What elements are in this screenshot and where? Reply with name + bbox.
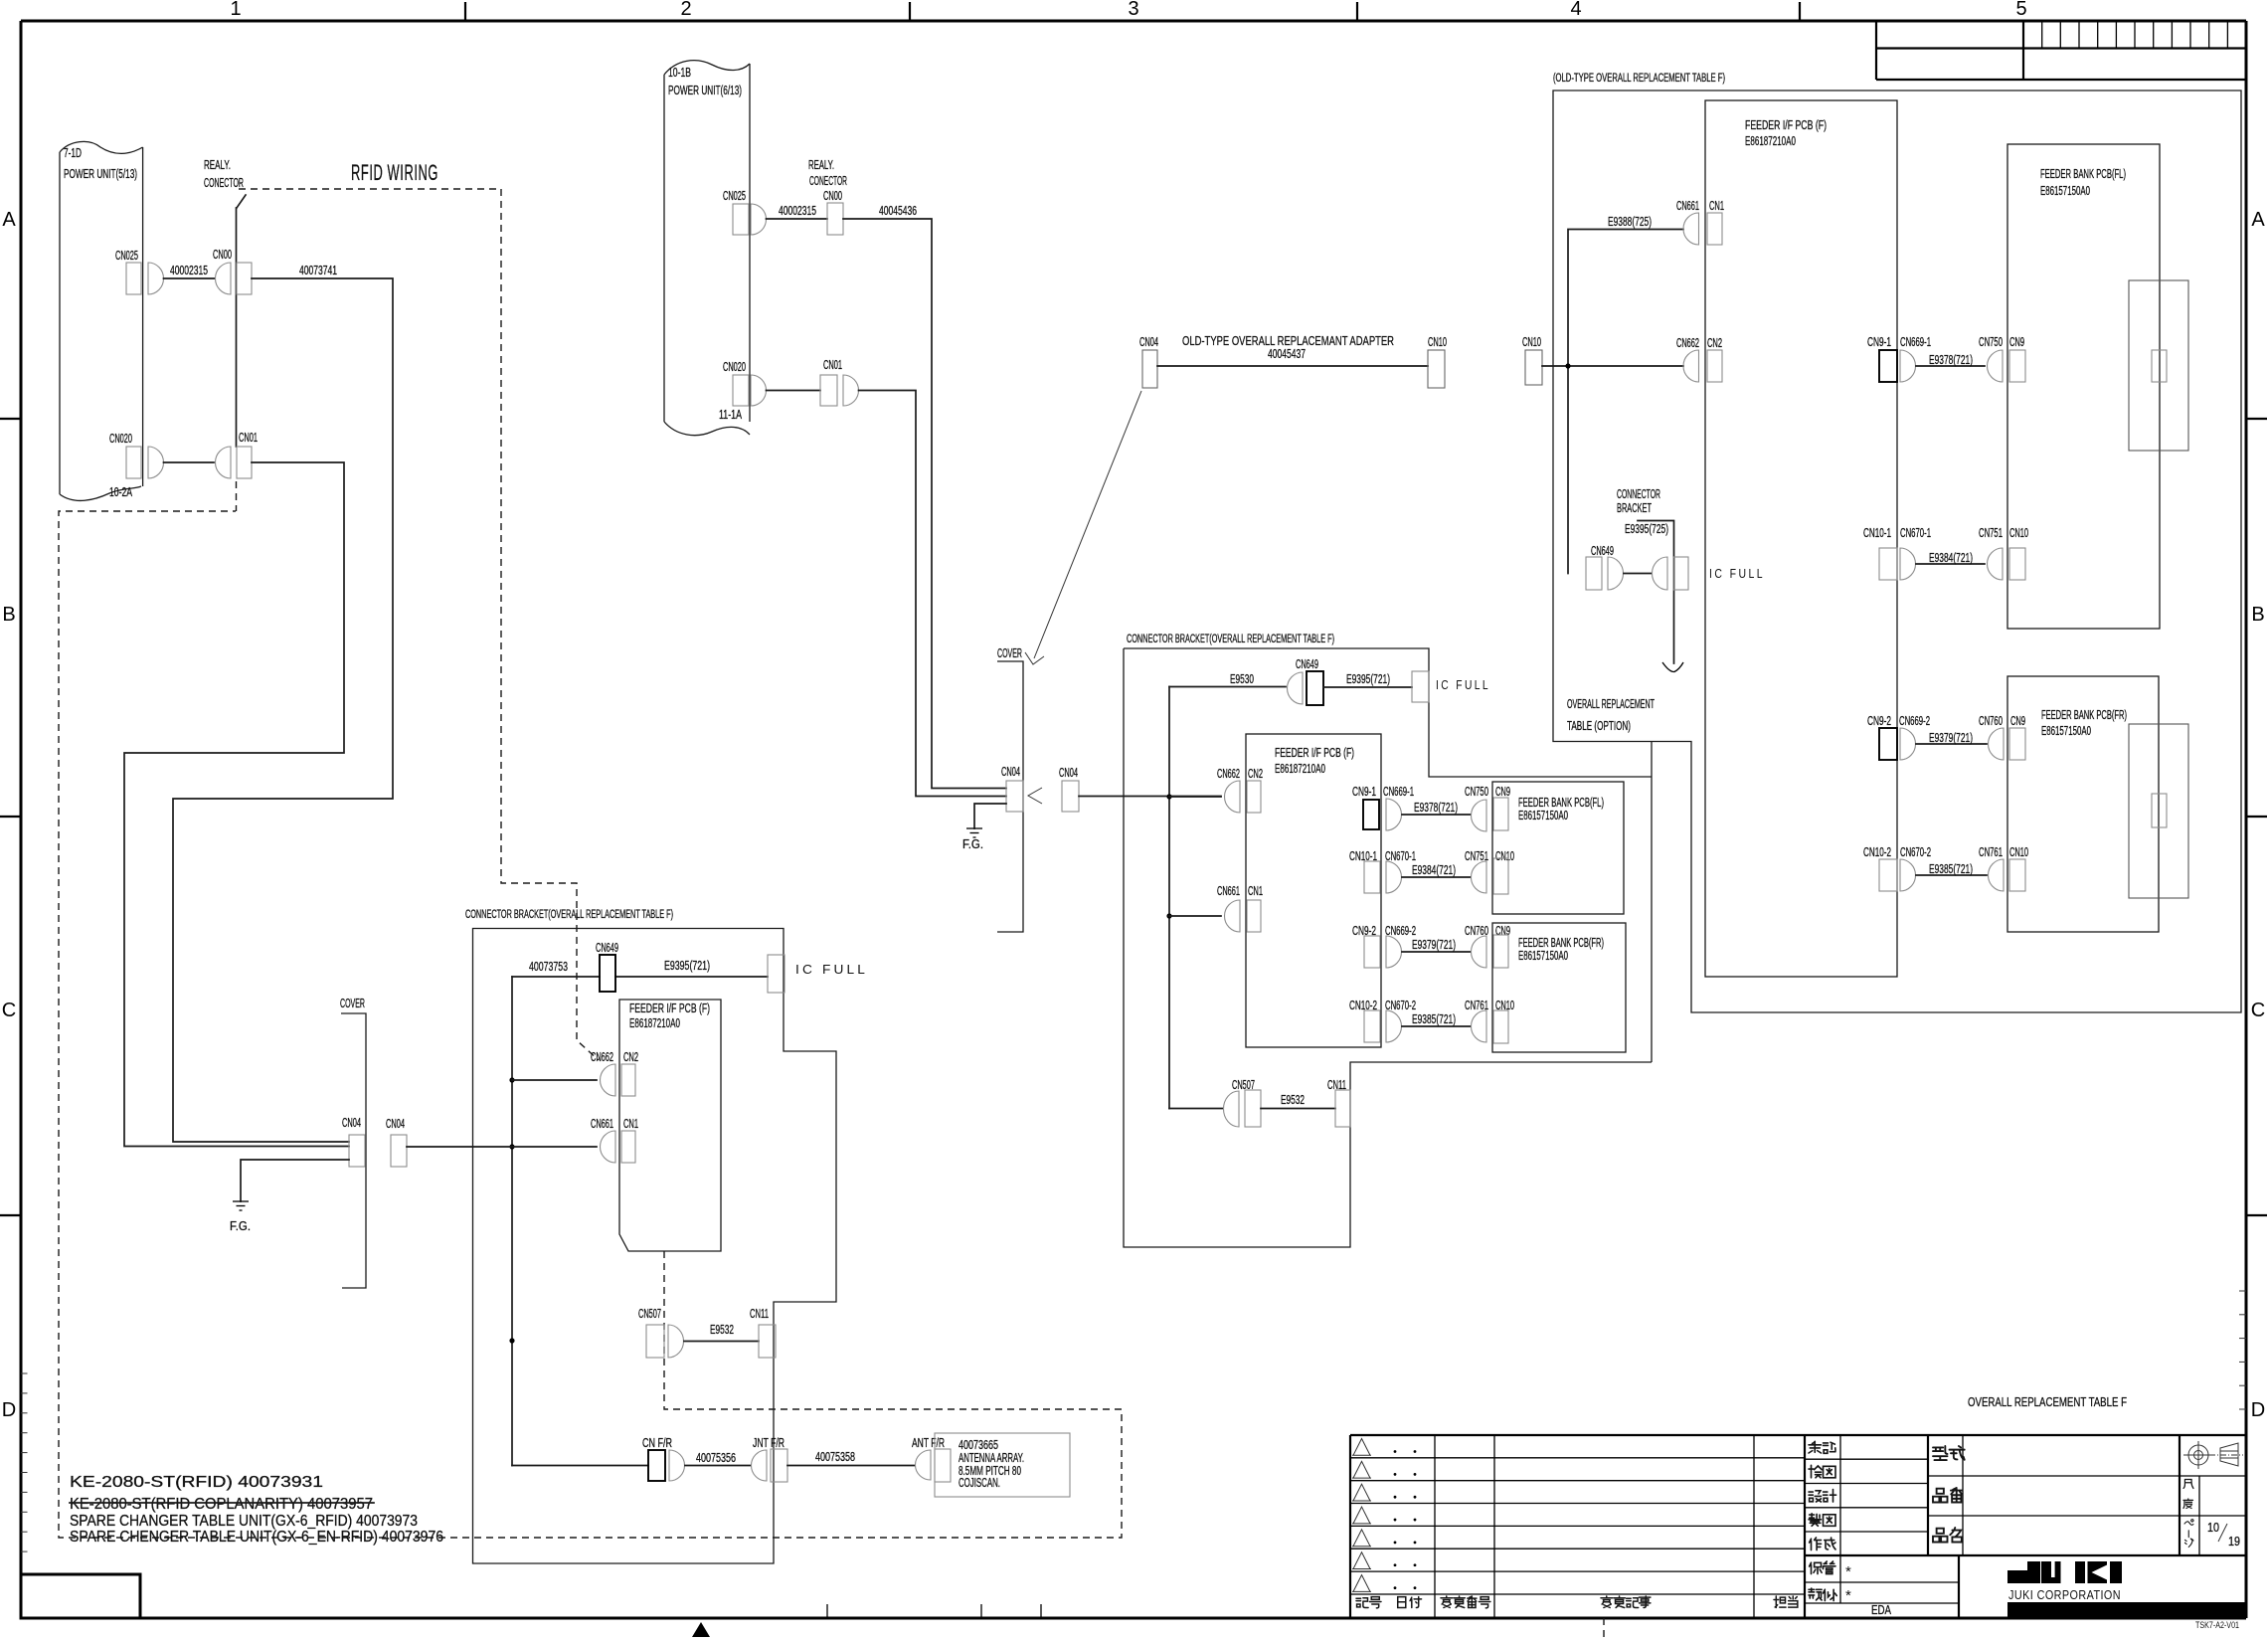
wire E9388 725: [1568, 215, 1683, 574]
connector CN670-2 (right): [1900, 845, 1931, 891]
relay connector labels (middle): [808, 158, 847, 203]
IC FULL connector (center): [1412, 671, 1490, 702]
card edge connector FL (right): [2129, 280, 2188, 451]
svg-text:(OLD-TYPE OVERALL REPLACEMENT: (OLD-TYPE OVERALL REPLACEMENT TABLE F): [1553, 73, 1725, 85]
svg-text:CONNECTOR BRACKET(OVERALL REPL: CONNECTOR BRACKET(OVERALL REPLACEMENT TA…: [465, 909, 673, 921]
svg-text:CN11: CN11: [750, 1307, 769, 1321]
wire CN01 branch: [124, 462, 349, 1147]
frame ruler ticks left: [21, 1373, 28, 1551]
feeder bank pcb FR box (right): [2007, 676, 2159, 932]
svg-text:CN649: CN649: [1296, 657, 1318, 671]
svg-text:CN1: CN1: [1709, 199, 1724, 213]
wire E9530: [1169, 672, 1286, 687]
connector CN04 (left-center pair2): [386, 1117, 407, 1167]
svg-text:E86157150A0: E86157150A0: [2040, 184, 2090, 198]
wire 40002315 (middle): [767, 204, 828, 219]
svg-text:CN761: CN761: [1979, 845, 2003, 859]
title block black bar: [2007, 1602, 2246, 1618]
svg-text:E9395(725): E9395(725): [1625, 522, 1668, 536]
connector CN661/CN1 (center): [1217, 884, 1263, 932]
connector CN10-2 (center): [1349, 999, 1380, 1042]
svg-text:E9395(721): E9395(721): [1346, 672, 1390, 686]
svg-text:10-1B: 10-1B: [668, 66, 691, 80]
svg-text:CN662: CN662: [591, 1050, 613, 1064]
connector CN00 (left): [213, 248, 252, 294]
connector CN669-1 (right): [1900, 335, 1931, 382]
svg-text:FEEDER BANK PCB(FL): FEEDER BANK PCB(FL): [2040, 167, 2126, 181]
bracket bus wire (left-center): [511, 977, 513, 1466]
power unit 10-1B labels: [668, 66, 742, 422]
RFID wiring dashed boundary: [59, 189, 1122, 1538]
svg-text:E9384(721): E9384(721): [1929, 551, 1973, 565]
svg-text:E9378(721): E9378(721): [1929, 353, 1973, 367]
wire 40073741: [173, 264, 393, 1142]
connector CN669-2 (right): [1899, 714, 1930, 760]
connector CN662/CN2 (left-center): [591, 1050, 638, 1096]
connector CN10-2 (right): [1863, 845, 1897, 891]
wire to CN F/R: [512, 1465, 648, 1467]
svg-text:CN760: CN760: [1979, 714, 2003, 728]
feeder IF pcb box (left-center): [619, 1000, 721, 1251]
svg-text:40075356: 40075356: [696, 1451, 736, 1465]
svg-text:FEEDER BANK PCB(FR): FEEDER BANK PCB(FR): [1518, 936, 1604, 950]
wire 40075358: [787, 1450, 915, 1466]
junction dots (left-center): [509, 1077, 514, 1343]
svg-text:40045436: 40045436: [879, 204, 917, 218]
svg-text:CN9: CN9: [2009, 335, 2024, 349]
wire E9384 721 (right): [1916, 551, 1985, 565]
svg-text:KE-2080-ST(RFID) 40073931: KE-2080-ST(RFID) 40073931: [70, 1474, 323, 1491]
svg-text:CN9-1: CN9-1: [1867, 335, 1891, 349]
top-right revision strip table: [1876, 21, 2246, 80]
svg-text:*: *: [1845, 1587, 1851, 1604]
svg-text:ANT F/R: ANT F/R: [912, 1436, 945, 1450]
svg-text:CN F/R: CN F/R: [642, 1436, 672, 1450]
svg-text:CN1: CN1: [1248, 884, 1263, 898]
connector CN761/CN10 (right): [1979, 845, 2028, 891]
svg-text:CONNECTOR BRACKET(OVERALL REPL: CONNECTOR BRACKET(OVERALL REPLACEMENT TA…: [1127, 634, 1334, 645]
svg-text:CN750: CN750: [1979, 335, 2003, 349]
svg-text:E86157150A0: E86157150A0: [1518, 809, 1568, 822]
svg-text:CN661: CN661: [591, 1117, 613, 1131]
wire E9378 721 (right): [1916, 353, 1985, 367]
wire to CN662 (center): [1169, 796, 1221, 798]
wire 40002315 (left): [164, 264, 216, 278]
svg-text:OVERALL REPLACEMENT: OVERALL REPLACEMENT: [1567, 697, 1655, 711]
svg-text:IC FULL: IC FULL: [1436, 677, 1490, 692]
svg-text:40002315: 40002315: [170, 264, 208, 277]
svg-text:CN00: CN00: [213, 248, 232, 262]
svg-text:CN020: CN020: [723, 360, 746, 374]
svg-text:COJISCAN.: COJISCAN.: [959, 1476, 1000, 1490]
svg-text:CN669-1: CN669-1: [1383, 785, 1414, 799]
frame row ticks left: [0, 419, 21, 1215]
card edge connector FR (right): [2129, 724, 2188, 898]
svg-text:CN9: CN9: [2010, 714, 2025, 728]
frame column ticks top: [465, 2, 1800, 21]
svg-text:ANTENNA ARRAY.: ANTENNA ARRAY.: [959, 1451, 1024, 1465]
svg-text:IC FULL: IC FULL: [795, 962, 868, 977]
svg-text:CN2: CN2: [1707, 336, 1722, 350]
svg-text:E9532: E9532: [710, 1323, 734, 1337]
connector CN662/CN2 (center): [1217, 767, 1263, 813]
connector CN669-1 (center): [1383, 785, 1414, 830]
connector CN760/CN9 (right): [1979, 714, 2025, 760]
svg-text:E9395(721): E9395(721): [664, 959, 710, 973]
svg-text:CN025: CN025: [723, 189, 746, 203]
svg-text:CN9-1: CN9-1: [1352, 785, 1376, 799]
svg-text:POWER UNIT(6/13): POWER UNIT(6/13): [668, 84, 742, 97]
connector CN020 (7-1D): [109, 432, 163, 478]
wire E9532 (left-center): [684, 1323, 759, 1342]
svg-text:IC FULL: IC FULL: [1709, 566, 1765, 581]
connector CN649 (left-center): [596, 941, 618, 992]
svg-text:5: 5: [2015, 0, 2026, 20]
svg-text:FEEDER BANK PCB(FL): FEEDER BANK PCB(FL): [1518, 796, 1604, 810]
connector CN10-1 (right): [1863, 526, 1897, 580]
svg-text:10-2A: 10-2A: [109, 485, 132, 499]
svg-text:CN2: CN2: [623, 1050, 638, 1064]
connector CN10 (adapter right): [1428, 335, 1447, 388]
bracket bus wire (center): [1168, 687, 1170, 1109]
svg-text:CN04: CN04: [386, 1117, 405, 1131]
wire CN04 to CN661: [407, 1146, 597, 1148]
column labels 1-5: [230, 0, 2026, 20]
connector bracket box (center): [1124, 648, 1652, 1247]
connector CN01 (left): [215, 431, 258, 478]
svg-text:CN751: CN751: [1979, 526, 2003, 540]
svg-text:E9388(725): E9388(725): [1608, 215, 1652, 229]
svg-text:CN750: CN750: [1465, 785, 1488, 799]
connector CN9-1 (right): [1867, 335, 1897, 382]
connector CN751/CN10 (center): [1465, 849, 1514, 894]
approval column grid: [1805, 1435, 2246, 1618]
ground wire FG (center): [974, 804, 1006, 828]
junction dots (center): [1166, 794, 1171, 918]
svg-text:SPARE CHENGER TABLE UNIT(GX-6_: SPARE CHENGER TABLE UNIT(GX-6_EN-RFID) 4…: [70, 1529, 443, 1546]
svg-text:FEEDER I/F PCB (F): FEEDER I/F PCB (F): [1745, 118, 1827, 132]
connector CN04 (left-center pair1): [342, 1116, 365, 1167]
frame column ticks bottom: [827, 1604, 1041, 1618]
svg-text:E86157150A0: E86157150A0: [1518, 949, 1568, 963]
svg-text:CN662: CN662: [1676, 336, 1699, 350]
wire E9532 (center): [1261, 1093, 1335, 1109]
wire CN649 pair (right): [1624, 573, 1652, 575]
revision triangles and date dots: [1352, 1439, 1416, 1592]
svg-text:CN10: CN10: [2009, 845, 2028, 859]
wire CN01 to CN04 (middle): [859, 391, 1007, 797]
frame row ticks right: [2246, 419, 2267, 1215]
svg-text:B: B: [2251, 604, 2264, 626]
wire center CN04 to bracket: [1079, 796, 1221, 798]
svg-text:TABLE (OPTION): TABLE (OPTION): [1567, 719, 1631, 733]
svg-text:40073741: 40073741: [299, 264, 337, 277]
connector CN760/CN9 (center): [1465, 924, 1510, 968]
connector JNT F/R: [752, 1436, 788, 1482]
connector CN751/CN10 (right): [1979, 526, 2028, 580]
feeder IF pcb labels (right): [1745, 118, 1827, 148]
svg-text:E9384(721): E9384(721): [1412, 863, 1456, 877]
antenna info box: [935, 1433, 1070, 1497]
power unit 7-1D labels: [64, 146, 137, 499]
svg-text:CN1: CN1: [623, 1117, 638, 1131]
svg-text:E9532: E9532: [1281, 1093, 1305, 1107]
svg-text:E9378(721): E9378(721): [1414, 801, 1458, 815]
connector CN649 (center): [1288, 657, 1324, 705]
svg-text:4: 4: [1570, 0, 1581, 20]
svg-text:10: 10: [2207, 1521, 2219, 1535]
connector CN11 (left-center): [750, 1307, 776, 1358]
connector CN F/R: [642, 1436, 685, 1481]
svg-text:40073665: 40073665: [959, 1438, 998, 1452]
feeder IF pcb labels (left-center): [629, 1002, 710, 1030]
svg-text:E9385(721): E9385(721): [1929, 862, 1973, 876]
connector ANT F/R: [912, 1436, 951, 1482]
svg-text:C: C: [2251, 1000, 2265, 1021]
wire E9379 721 (right): [1916, 731, 1987, 745]
approval labels shonin kenzu sekkei seizu sakusei: [1809, 1441, 1891, 1617]
connector CN9-2 (right): [1867, 714, 1897, 760]
connector CN020 (10-1B): [723, 360, 766, 406]
feeder bank pcb FL box (right): [2007, 144, 2160, 629]
svg-text:OVERALL REPLACEMENT TABLE F: OVERALL REPLACEMENT TABLE F: [1968, 1395, 2127, 1409]
ground symbol FG (left-center): [230, 1201, 251, 1233]
connector CN04 (center right): [1059, 766, 1079, 812]
svg-text:D: D: [2, 1399, 16, 1421]
svg-text:CN10: CN10: [1495, 849, 1514, 863]
connector CN662/CN2 (right): [1676, 336, 1722, 382]
svg-text:CN507: CN507: [638, 1307, 661, 1321]
svg-text:FEEDER BANK PCB(FR): FEEDER BANK PCB(FR): [2041, 708, 2127, 722]
svg-text:OLD-TYPE OVERALL REPLACEMANT A: OLD-TYPE OVERALL REPLACEMANT ADAPTER: [1182, 333, 1394, 348]
connector CN9-2 (center): [1352, 924, 1380, 968]
connector CN04 (adapter left): [1139, 335, 1158, 388]
fold triangle bottom: [692, 1622, 710, 1637]
connector CN01 (middle): [820, 358, 858, 406]
svg-text:EDA: EDA: [1871, 1602, 1891, 1617]
wire 40073753 / E9395 (left-center): [512, 959, 768, 977]
svg-text:JNT F/R: JNT F/R: [753, 1436, 785, 1450]
bottom-left corner box: [21, 1574, 140, 1618]
svg-text:F.G.: F.G.: [230, 1219, 251, 1233]
wire adapter CN04-CN10: [1157, 365, 1428, 367]
connector bracket labels (right): [1617, 487, 1660, 515]
svg-text:COVER: COVER: [340, 997, 365, 1010]
ground wire FG (left-center): [241, 1160, 349, 1201]
relay connector labels (left): [204, 158, 244, 190]
svg-text:E86157150A0: E86157150A0: [2041, 724, 2091, 738]
svg-text:*: *: [1845, 1563, 1851, 1580]
svg-text:SPARE CHANGER TABLE UNIT(GX-6_: SPARE CHANGER TABLE UNIT(GX-6_RFID) 4007…: [70, 1513, 418, 1530]
mating arrow (center CN04): [1028, 788, 1042, 804]
svg-text:FEEDER I/F PCB (F): FEEDER I/F PCB (F): [1275, 746, 1354, 760]
svg-text:CN04: CN04: [1001, 765, 1020, 779]
wire 40045436: [843, 204, 1006, 789]
svg-text:CN649: CN649: [596, 941, 618, 955]
power unit 7-1D box: [60, 141, 143, 500]
svg-text:CN649: CN649: [1591, 544, 1614, 558]
feeder IF pcb labels (center): [1275, 746, 1354, 776]
connector CN761/CN10 (center): [1465, 999, 1514, 1043]
svg-text:CN2: CN2: [1248, 767, 1263, 781]
wire E9385 721 (center): [1402, 1012, 1471, 1026]
title block outline: [1350, 1435, 2246, 1618]
feeder bank pcb FR box (center): [1492, 923, 1626, 1052]
svg-text:A: A: [2, 209, 16, 231]
wire E9395 725 (right): [1625, 521, 1683, 672]
wire to CN661 (center): [1169, 915, 1221, 917]
revision table grid: [1350, 1435, 1805, 1618]
wire E9385 721 (right): [1916, 862, 1987, 876]
svg-text:CN020: CN020: [109, 432, 132, 446]
svg-text:E9530: E9530: [1230, 672, 1254, 686]
svg-text:CN669-2: CN669-2: [1899, 714, 1930, 728]
svg-text:CN04: CN04: [1059, 766, 1078, 780]
svg-text:CN662: CN662: [1217, 767, 1240, 781]
wire CN662 (left-center): [512, 1079, 597, 1081]
row labels A-D right: [2251, 209, 2266, 1421]
svg-text:A: A: [2251, 209, 2265, 231]
wire E9395 721 (center): [1323, 672, 1412, 687]
svg-text:REALY.: REALY.: [808, 158, 834, 172]
connector CN10-1 (center): [1349, 849, 1380, 893]
connector CN00 (middle): [827, 203, 843, 235]
svg-text:40045437: 40045437: [1268, 347, 1306, 361]
svg-text:CONNECTOR: CONNECTOR: [1617, 487, 1660, 501]
svg-text:FEEDER I/F PCB (F): FEEDER I/F PCB (F): [629, 1002, 710, 1015]
connector CN750/CN9 (right): [1979, 335, 2025, 382]
connector CN649 (right): [1586, 544, 1624, 590]
svg-text:JUKI CORPORATION: JUKI CORPORATION: [2008, 1588, 2121, 1602]
scale page cells shakudo page: [2183, 1476, 2240, 1555]
connector CN670-1 (right): [1900, 526, 1931, 580]
feeder IF pcb box (right): [1705, 100, 1897, 977]
svg-text:2: 2: [680, 0, 691, 20]
svg-text:F.G.: F.G.: [962, 837, 983, 851]
svg-text:40075358: 40075358: [815, 1450, 855, 1464]
svg-text:40073753: 40073753: [529, 960, 568, 974]
svg-text:CN10: CN10: [1428, 335, 1447, 349]
svg-text:CN10: CN10: [2009, 526, 2028, 540]
connector CN507 (center): [1223, 1078, 1261, 1127]
connector CN670-2 (center): [1385, 999, 1416, 1042]
feeder bank pcb FL box (center): [1492, 782, 1624, 914]
connector CN649 mate (right): [1652, 557, 1688, 590]
IC FULL connector (left-center): [768, 955, 868, 993]
frame ruler ticks right: [2239, 1291, 2246, 1409]
cover label (left-center): [340, 997, 366, 1288]
leader arrow adapter to cover: [1025, 391, 1141, 664]
svg-text:3: 3: [1128, 0, 1138, 20]
svg-text:C: C: [2, 1000, 16, 1021]
wire CN020-CN01 (middle): [767, 390, 821, 392]
svg-text:1: 1: [230, 0, 241, 20]
connector CN025 (7-1D): [115, 249, 163, 294]
connector CN661/CN1 (right): [1676, 199, 1724, 245]
connector CN661/CN1 (left-center): [591, 1117, 638, 1163]
svg-text:19: 19: [2228, 1535, 2240, 1549]
svg-text:E86187210A0: E86187210A0: [1275, 762, 1325, 776]
power unit 10-1B box: [664, 61, 750, 436]
svg-text:CN10-2: CN10-2: [1863, 845, 1891, 859]
svg-text:CN9-2: CN9-2: [1867, 714, 1891, 728]
svg-text:CN9: CN9: [1495, 785, 1510, 799]
svg-text:CN661: CN661: [1676, 199, 1699, 213]
svg-text:TSK7-A2-V01: TSK7-A2-V01: [2195, 1620, 2239, 1630]
svg-text:CN04: CN04: [1139, 335, 1158, 349]
fold dashed mark bottom: [1603, 1618, 1605, 1641]
svg-text:COVER: COVER: [997, 646, 1022, 660]
svg-text:CN10-1: CN10-1: [1863, 526, 1891, 540]
model list text: [70, 1474, 443, 1546]
connector CN04 (center left): [1001, 765, 1023, 812]
wire E9384 721 (center): [1402, 863, 1471, 877]
svg-text:CN04: CN04: [342, 1116, 361, 1130]
svg-text:CN00: CN00: [823, 189, 842, 203]
svg-text:E86187210A0: E86187210A0: [629, 1016, 680, 1030]
svg-text:B: B: [2, 604, 15, 626]
svg-text:E9385(721): E9385(721): [1412, 1012, 1456, 1026]
row labels A-D left: [2, 209, 17, 1421]
svg-text:40002315: 40002315: [779, 204, 816, 218]
svg-text:CN025: CN025: [115, 249, 138, 263]
wire corner to CN507 (center): [1169, 1108, 1223, 1110]
connector bracket box (left-center): [473, 929, 837, 1564]
connector CN11 (center): [1327, 1078, 1350, 1127]
svg-text:POWER UNIT(5/13): POWER UNIT(5/13): [64, 167, 137, 181]
svg-text:CN669-1: CN669-1: [1900, 335, 1931, 349]
overall replacement table option label: [1567, 697, 1655, 733]
svg-text:E9379(721): E9379(721): [1929, 731, 1973, 745]
feeder IF pcb box (center): [1246, 734, 1381, 1047]
revision header labels kigou hiduke: [1356, 1596, 1798, 1608]
svg-text:CN10: CN10: [1522, 335, 1541, 349]
connector CN750/CN9 (center): [1465, 785, 1510, 831]
wire E9378 721 (center): [1402, 801, 1471, 815]
wire CN020-CN01 (left): [164, 461, 215, 463]
svg-text:CN01: CN01: [823, 358, 842, 372]
connector CN9-1 (center): [1352, 785, 1379, 829]
connector CN025 (10-1B): [723, 189, 766, 235]
svg-text:11-1A: 11-1A: [719, 408, 742, 422]
connector CN669-2 (center): [1385, 924, 1416, 968]
svg-text:CONECTOR: CONECTOR: [204, 176, 244, 190]
svg-text:D: D: [2251, 1399, 2265, 1421]
adapter title OLD-TYPE OVERALL REPLACEMANT ADAPTER: [1182, 333, 1394, 361]
svg-text:E9379(721): E9379(721): [1412, 938, 1456, 952]
svg-text:REALY.: REALY.: [204, 158, 231, 172]
relay bracket line (left): [237, 195, 247, 447]
svg-text:CN661: CN661: [1217, 884, 1240, 898]
projection symbol: [2183, 1441, 2243, 1469]
wire CN10 to CN662 (right): [1542, 365, 1683, 367]
svg-text:BRACKET: BRACKET: [1617, 501, 1652, 515]
svg-text:CN01: CN01: [239, 431, 258, 445]
svg-text:CONECTOR: CONECTOR: [809, 174, 847, 188]
wire 40075356: [685, 1451, 751, 1466]
svg-text:KE-2080-ST(RFID COPLANARITY) 4: KE-2080-ST(RFID COPLANARITY) 40073957: [70, 1496, 373, 1513]
JUKI logo: [2007, 1561, 2122, 1583]
svg-text:CN670-1: CN670-1: [1900, 526, 1931, 540]
svg-text:RFID WIRING: RFID WIRING: [351, 160, 438, 185]
ground symbol FG (center): [962, 828, 983, 851]
cover label (center): [997, 646, 1023, 932]
junction dot (right bus): [1565, 363, 1570, 368]
connector CN10 (right box input): [1522, 335, 1542, 385]
wire E9379 721 (center): [1402, 938, 1471, 952]
svg-text:7-1D: 7-1D: [64, 146, 82, 160]
svg-text:CN670-2: CN670-2: [1900, 845, 1931, 859]
